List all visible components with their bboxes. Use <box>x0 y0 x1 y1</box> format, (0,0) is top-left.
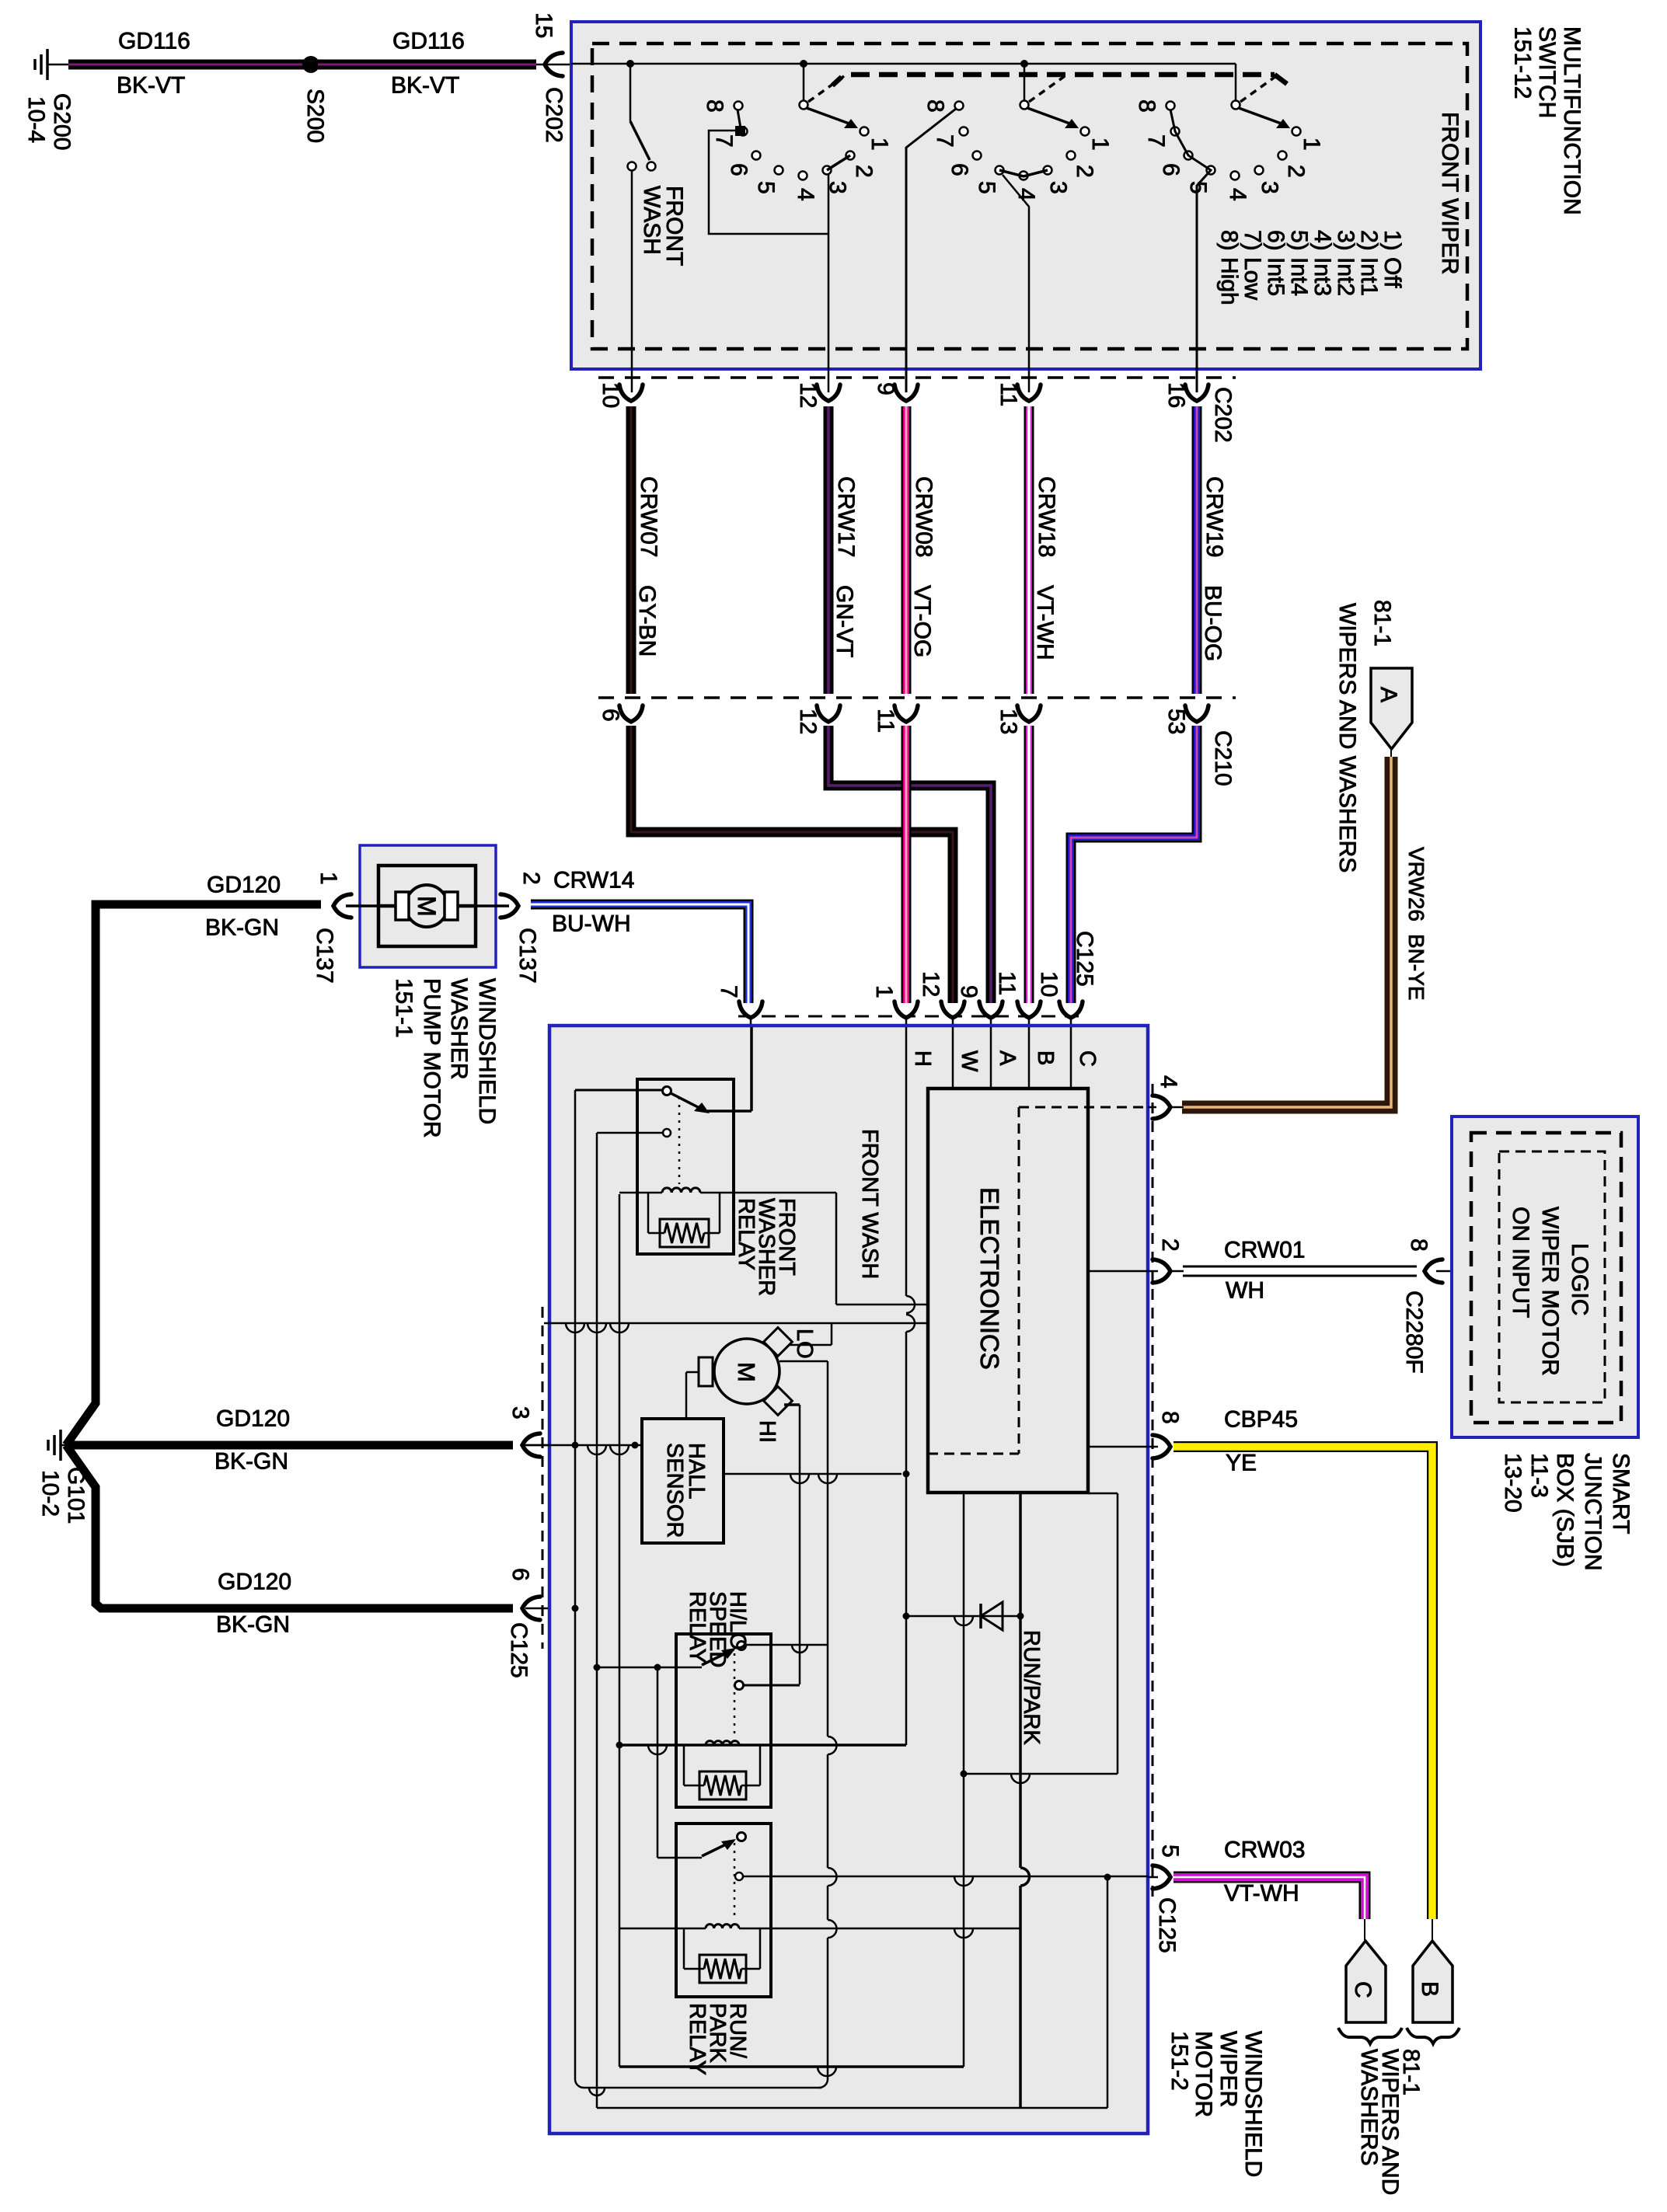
svg-text:6: 6 <box>507 1568 533 1581</box>
svg-text:W: W <box>957 1050 982 1072</box>
svg-text:VRW26: VRW26 <box>1404 847 1428 921</box>
svg-text:PUMP MOTOR: PUMP MOTOR <box>419 978 445 1138</box>
svg-text:4: 4 <box>1225 188 1250 201</box>
svg-text:4: 4 <box>793 188 818 201</box>
svg-text:M: M <box>413 896 441 917</box>
svg-text:G200: G200 <box>49 93 75 150</box>
svg-text:10-2: 10-2 <box>37 1470 63 1517</box>
svg-text:C: C <box>1350 1981 1376 1998</box>
svg-text:CRW01: CRW01 <box>1224 1238 1305 1263</box>
svg-text:RELAY: RELAY <box>734 1198 759 1270</box>
svg-text:G101: G101 <box>63 1467 89 1524</box>
svg-text:CRW19: CRW19 <box>1201 476 1227 557</box>
svg-text:2: 2 <box>1072 165 1097 178</box>
svg-text:JUNCTION: JUNCTION <box>1580 1453 1606 1571</box>
svg-text:BK-GN: BK-GN <box>205 915 279 941</box>
svg-text:CRW07: CRW07 <box>636 476 661 557</box>
svg-text:WASHER: WASHER <box>446 978 472 1080</box>
svg-text:4: 4 <box>1013 188 1039 201</box>
svg-text:81-1: 81-1 <box>1369 600 1395 646</box>
svg-text:1: 1 <box>316 872 341 885</box>
svg-text:15: 15 <box>531 12 556 38</box>
svg-text:WASHERS: WASHERS <box>1356 2049 1382 2166</box>
svg-text:LO: LO <box>792 1329 817 1359</box>
svg-text:WINDSHIELD: WINDSHIELD <box>474 978 500 1124</box>
svg-text:GD116: GD116 <box>392 29 465 54</box>
svg-text:B: B <box>1417 1981 1442 1997</box>
svg-text:C125: C125 <box>506 1622 532 1678</box>
svg-text:FRONT WIPER: FRONT WIPER <box>1437 112 1463 274</box>
svg-text:7: 7 <box>932 134 957 148</box>
svg-text:1) Off2) Int13) Int24) Int35): 1) Off2) Int13) Int24) Int35) Int46) Int… <box>1216 230 1405 305</box>
svg-text:11: 11 <box>996 382 1021 406</box>
svg-text:ON INPUT: ON INPUT <box>1508 1207 1533 1318</box>
svg-text:VT-WH: VT-WH <box>1032 585 1058 660</box>
svg-text:5: 5 <box>974 181 999 194</box>
svg-text:3: 3 <box>507 1406 533 1420</box>
svg-text:10-4: 10-4 <box>23 96 49 143</box>
svg-text:8: 8 <box>1406 1238 1432 1252</box>
svg-text:BK-VT: BK-VT <box>117 73 185 99</box>
svg-text:13: 13 <box>996 709 1021 734</box>
svg-text:WIPER: WIPER <box>1215 2031 1241 2107</box>
svg-text:CRW18: CRW18 <box>1034 476 1059 557</box>
svg-text:SENSOR: SENSOR <box>662 1443 687 1538</box>
svg-text:10: 10 <box>1036 971 1062 997</box>
svg-text:9: 9 <box>873 382 898 395</box>
svg-text:7: 7 <box>716 985 741 998</box>
svg-text:12: 12 <box>918 971 943 997</box>
svg-text:C125: C125 <box>1072 931 1097 987</box>
svg-text:CRW03: CRW03 <box>1224 1838 1305 1863</box>
svg-text:BU-OG: BU-OG <box>1200 585 1226 661</box>
svg-text:6: 6 <box>598 709 623 722</box>
svg-text:8: 8 <box>702 99 727 113</box>
svg-text:6: 6 <box>726 163 752 176</box>
svg-text:MOTOR: MOTOR <box>1191 2031 1216 2117</box>
svg-text:2: 2 <box>518 872 544 885</box>
svg-text:HI: HI <box>755 1420 779 1443</box>
svg-text:VT-OG: VT-OG <box>909 585 935 657</box>
svg-text:7: 7 <box>711 134 737 148</box>
svg-text:CBP45: CBP45 <box>1224 1407 1298 1433</box>
svg-text:RELAY: RELAY <box>685 2003 710 2075</box>
svg-text:M: M <box>733 1362 760 1382</box>
svg-text:YE: YE <box>1226 1451 1257 1476</box>
svg-text:1: 1 <box>1087 138 1113 151</box>
svg-text:RUN/PARK: RUN/PARK <box>1019 1630 1044 1745</box>
svg-text:53: 53 <box>1163 709 1189 734</box>
svg-text:BU-WH: BU-WH <box>552 911 631 937</box>
svg-text:C: C <box>1075 1050 1100 1067</box>
svg-text:BOX (SJB): BOX (SJB) <box>1552 1453 1578 1567</box>
svg-text:11-3: 11-3 <box>1526 1453 1552 1498</box>
svg-text:BK-VT: BK-VT <box>391 73 459 99</box>
svg-text:C202: C202 <box>1210 387 1236 443</box>
svg-text:6: 6 <box>947 163 972 176</box>
svg-text:A: A <box>995 1050 1020 1066</box>
svg-text:GY-BN: GY-BN <box>634 585 660 657</box>
svg-text:SMART: SMART <box>1608 1453 1634 1534</box>
svg-text:10: 10 <box>598 382 623 408</box>
svg-text:C137: C137 <box>312 928 337 984</box>
svg-text:8: 8 <box>922 99 948 113</box>
svg-text:CRW17: CRW17 <box>833 476 859 557</box>
svg-text:WIPER MOTOR: WIPER MOTOR <box>1537 1207 1563 1376</box>
svg-text:12: 12 <box>795 709 821 734</box>
svg-text:H: H <box>910 1050 935 1067</box>
svg-text:5: 5 <box>753 181 779 194</box>
svg-text:151-1: 151-1 <box>391 978 417 1038</box>
svg-text:5: 5 <box>1157 1844 1183 1858</box>
svg-text:2: 2 <box>1157 1238 1183 1252</box>
svg-text:BN-YE: BN-YE <box>1404 934 1428 1001</box>
svg-text:GD120: GD120 <box>218 1569 291 1595</box>
svg-text:GD116: GD116 <box>118 29 190 54</box>
svg-text:2: 2 <box>851 165 877 178</box>
svg-text:A: A <box>1376 687 1401 702</box>
svg-text:BK-GN: BK-GN <box>214 1449 288 1475</box>
svg-text:12: 12 <box>795 382 821 408</box>
svg-text:4: 4 <box>1156 1075 1181 1089</box>
svg-text:1: 1 <box>1299 138 1324 151</box>
svg-text:GN-VT: GN-VT <box>832 585 857 657</box>
svg-text:ELECTRONICS: ELECTRONICS <box>975 1187 1004 1370</box>
svg-text:3: 3 <box>1045 181 1071 194</box>
svg-text:2: 2 <box>1283 165 1309 178</box>
svg-text:7: 7 <box>1143 134 1169 148</box>
svg-text:1: 1 <box>867 138 892 151</box>
svg-text:WH: WH <box>1226 1278 1264 1304</box>
svg-text:C210: C210 <box>1210 730 1236 786</box>
svg-text:FRONTWASH: FRONTWASH <box>639 186 687 266</box>
svg-text:GD120: GD120 <box>207 873 281 898</box>
svg-text:1: 1 <box>871 985 897 998</box>
svg-text:VT-WH: VT-WH <box>1224 1881 1299 1907</box>
svg-text:16: 16 <box>1163 382 1189 408</box>
svg-text:3: 3 <box>1257 181 1282 194</box>
svg-text:C2280F: C2280F <box>1401 1291 1427 1374</box>
svg-text:151-2: 151-2 <box>1167 2031 1192 2091</box>
svg-text:B: B <box>1033 1050 1058 1065</box>
svg-text:C137: C137 <box>514 928 540 984</box>
svg-text:FRONT WASH: FRONT WASH <box>857 1129 882 1279</box>
svg-text:C125: C125 <box>1154 1897 1180 1953</box>
svg-text:13-20: 13-20 <box>1500 1453 1526 1513</box>
svg-text:S200: S200 <box>302 89 328 143</box>
svg-text:GD120: GD120 <box>216 1406 290 1432</box>
svg-text:RELAY: RELAY <box>685 1591 710 1663</box>
svg-text:BK-GN: BK-GN <box>216 1612 290 1638</box>
svg-text:6: 6 <box>1158 163 1184 176</box>
svg-text:11: 11 <box>873 709 898 733</box>
svg-text:11: 11 <box>994 971 1020 995</box>
svg-text:LOGIC: LOGIC <box>1567 1243 1592 1315</box>
svg-text:CRW08: CRW08 <box>911 476 936 557</box>
svg-text:C202: C202 <box>541 87 567 143</box>
svg-text:8: 8 <box>1157 1411 1183 1424</box>
svg-text:WINDSHIELD: WINDSHIELD <box>1240 2031 1266 2177</box>
svg-text:CRW14: CRW14 <box>553 868 634 894</box>
svg-text:9: 9 <box>956 985 982 998</box>
svg-text:8: 8 <box>1134 99 1160 113</box>
svg-text:WIPERS AND WASHERS: WIPERS AND WASHERS <box>1334 603 1360 873</box>
